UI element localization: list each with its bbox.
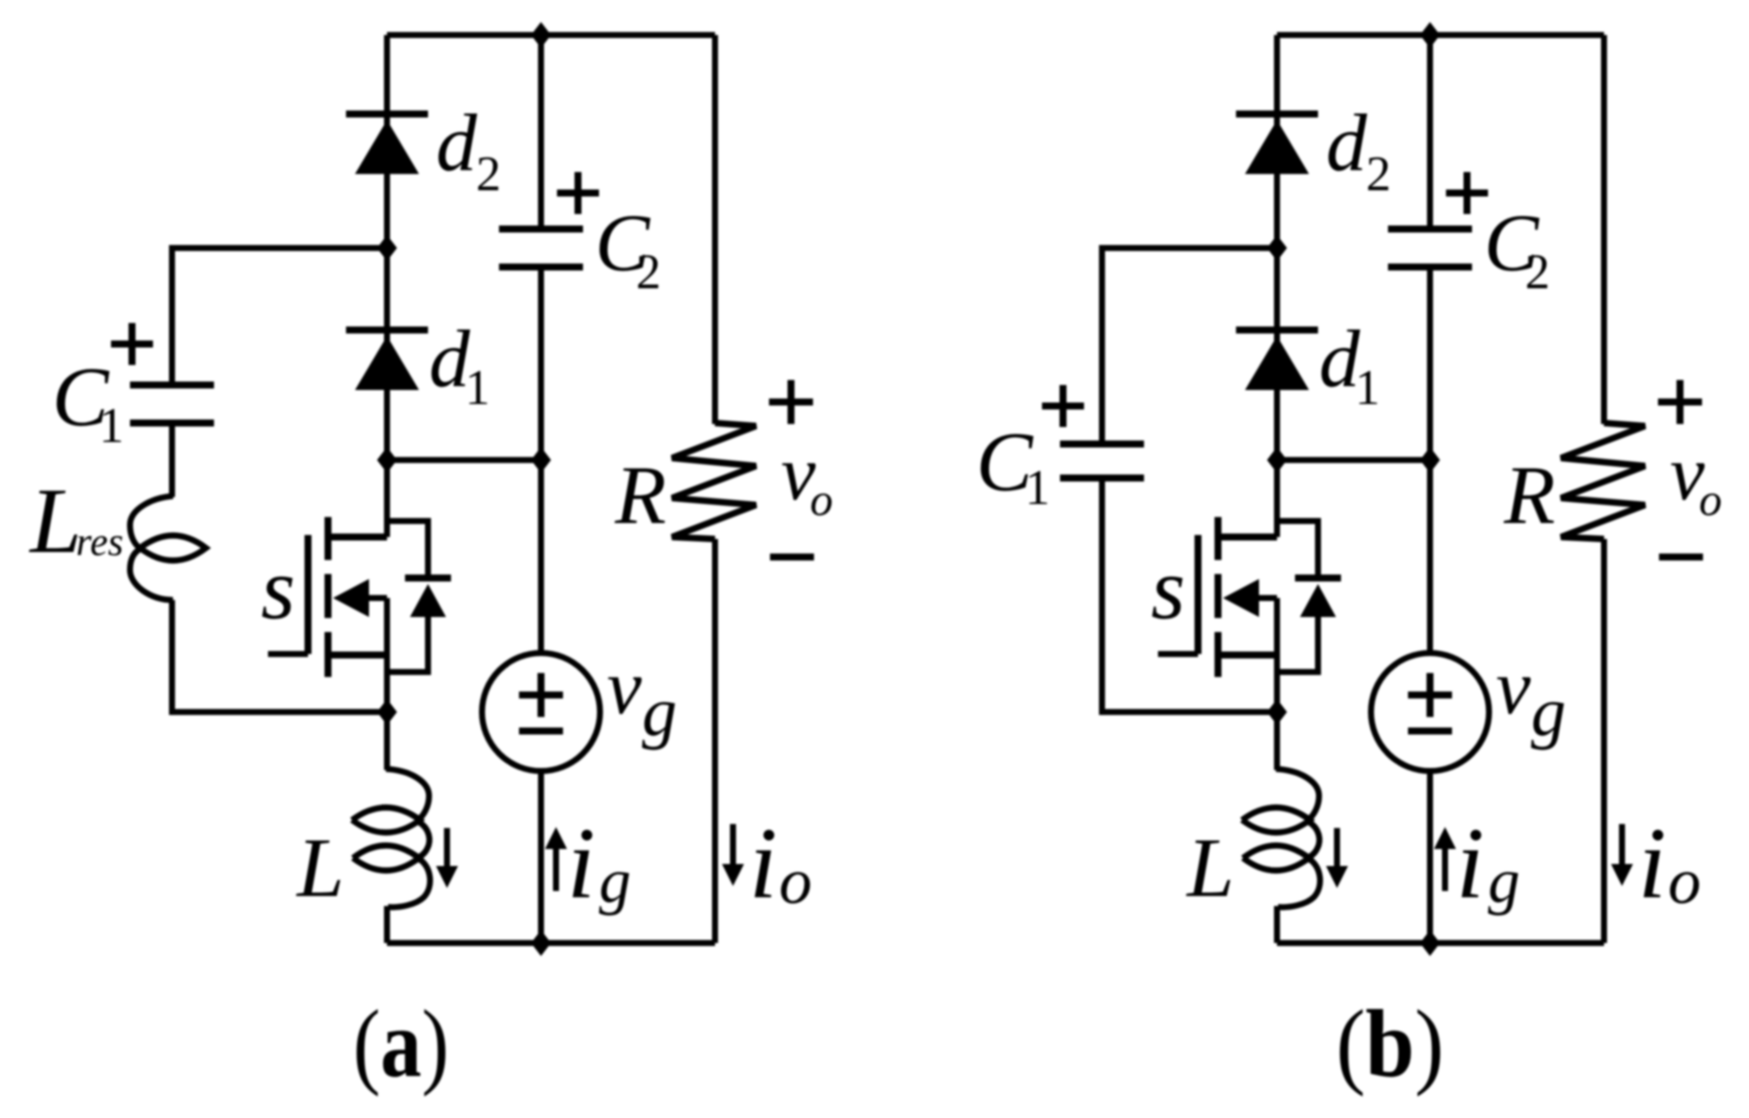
wire b: L to bottom rail [1274,906,1280,943]
transistor S (b): body diode [1277,521,1318,578]
wire a: node B to C2 branch [387,457,541,463]
arrow io down (a) [730,824,736,870]
wire a: d2 branch (top rail to node A) [384,35,390,248]
node a: bottom mid junction [531,930,551,956]
svg-text:R: R [1503,449,1555,542]
svg-text:v: v [607,643,642,730]
svg-text:g: g [1531,674,1566,751]
label + of C2 (b) [1446,190,1488,197]
svg-text:(b): (b) [1336,990,1444,1097]
svg-text:1: 1 [1025,459,1050,515]
resistor R (a) [672,423,756,539]
wire b: right branch bottom [1601,539,1607,943]
node B b: drain node [1267,447,1287,473]
node b: bottom mid junction [1420,930,1440,956]
transistor S (a): body diode [387,521,428,578]
diode d1 (a) [346,327,428,334]
svg-text:d: d [1326,97,1368,188]
label + of vo (b) [1658,399,1702,406]
label - of vo (b) [1659,554,1703,561]
svg-text:2: 2 [476,145,501,201]
svg-text:i: i [1456,807,1484,920]
wire a: right branch top [712,35,718,424]
svg-text:L: L [1186,821,1234,915]
transistor S (a): channel dashes [325,517,332,560]
transistor S (b): source lead [1274,598,1280,655]
transistor S (b): drain lead [1218,534,1277,541]
wire a: top rail [387,32,715,38]
diode d2 (a) [346,111,428,118]
label + of C1 (a) [111,341,153,348]
capacitor C1 (b) [1060,441,1144,448]
svg-text:i: i [749,807,777,920]
wire a: C2 branch top [538,35,544,229]
svg-text:R: R [614,449,666,542]
arrow iL down (a) [444,828,450,872]
wire b: C2 branch top [1427,35,1433,229]
wire b: C2 to vg [1427,267,1433,655]
arrow ig up (b) [1442,843,1448,891]
inductor Lres (a) [130,496,173,548]
svg-text:s: s [1151,541,1185,638]
capacitor C1 (a) [130,382,214,389]
wire a: source node to L [384,712,390,770]
svg-text:1: 1 [1355,359,1380,415]
arrow ig up (a) [553,843,559,891]
wire b: source node to L [1274,712,1280,770]
wire a: vg to bottom rail [538,771,544,943]
svg-text:(a): (a) [353,990,449,1097]
svg-text:o: o [1668,845,1701,918]
svg-text:res: res [76,519,123,564]
diode d2 (b) [1236,111,1318,118]
wire a: C1 to Lres [169,423,175,497]
transistor S (a): gate lead [268,651,308,657]
svg-text:2: 2 [636,243,661,299]
wire b: bottom rail [1277,940,1604,946]
wire b: C1 to source node [1102,478,1277,712]
resistor R (b) [1561,423,1645,539]
svg-text:1: 1 [99,397,124,453]
svg-text:i: i [1638,807,1666,920]
wire b: node A down through d1 to node B [1274,248,1280,460]
wire b: d2 branch (top rail to node A) [1274,35,1280,248]
label + of C2 (a) [557,190,599,197]
label + of C1 (b) [1042,403,1084,410]
wire b: node A to C1 branch [1102,248,1277,444]
node b: source junction [1267,699,1287,725]
transistor S (b): channel dashes [1215,517,1222,560]
capacitor C2 (b) [1388,226,1472,233]
node a: top mid junction [531,22,551,48]
wire a: source to node [384,655,390,712]
arrow iL down (b) [1334,828,1340,872]
capacitor C2 (a) [499,226,583,233]
svg-text:g: g [599,845,631,916]
inductor L (a) [386,769,429,819]
source vg (b) [1371,653,1489,771]
svg-text:i: i [567,807,595,920]
wire b: top rail [1277,32,1604,38]
wire a: right branch bottom [712,539,718,943]
wire a: node A down through d1 to node B [384,248,390,460]
wire a: bottom rail [387,940,715,946]
arrow io down (b) [1619,824,1625,870]
svg-text:g: g [1488,845,1520,916]
wire a: node A to C1 branch [172,248,387,385]
node a: source junction [377,699,397,725]
svg-text:L: L [296,821,344,915]
transistor S (b): gate lead [1158,651,1198,657]
svg-text:2: 2 [1525,243,1550,299]
svg-text:1: 1 [465,359,490,415]
wire b: source to node [1274,655,1280,712]
svg-text:o: o [779,845,812,918]
inductor L (b) [1276,769,1319,819]
transistor S (a): source lead [384,598,390,655]
wire b: vg to bottom rail [1427,771,1433,943]
node B a: drain node [377,447,397,473]
transistor S (b): gate bar [1195,535,1202,654]
svg-text:g: g [642,674,677,751]
svg-text:L: L [28,470,82,573]
source vg (a) [482,653,600,771]
wire b: right branch top [1601,35,1607,424]
transistor S (a): gate bar [305,535,312,654]
node a: C2 bottom junction [531,447,551,473]
diode d1 (b) [1236,327,1318,334]
transistor S (b): body arrow [1223,579,1259,617]
node b: C2 bottom junction [1420,447,1440,473]
wire a: Lres to source node [172,600,387,712]
svg-text:v: v [1496,643,1531,730]
svg-text:2: 2 [1366,145,1391,201]
node A b: d1/d2 junction [1267,235,1287,261]
transistor S (a): drain stub [384,460,390,537]
label - of vo (a) [770,554,814,561]
transistor S (a): body arrow [333,579,369,617]
transistor S (b): drain stub [1274,460,1280,537]
svg-text:o: o [1699,474,1722,525]
wire a: L to bottom rail [384,906,390,943]
node b: top mid junction [1420,22,1440,48]
transistor S (a): drain lead [328,534,387,541]
label + of vo (a) [769,399,813,406]
wire a: C2 to vg [538,267,544,655]
svg-text:s: s [261,541,295,638]
wire b: node B to C2 branch [1277,457,1430,463]
svg-text:o: o [810,474,833,525]
node A a: d1/d2 junction [377,235,397,261]
svg-text:d: d [436,97,478,188]
